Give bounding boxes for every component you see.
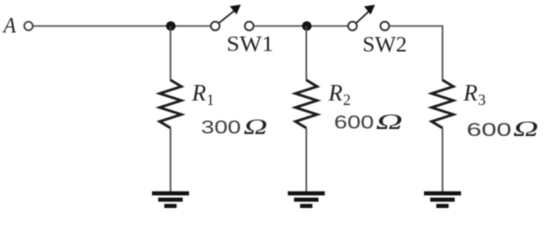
svg-text:600: 600: [467, 120, 512, 140]
terminal A: [24, 22, 33, 31]
wire node2 down to R2: [305, 26, 307, 81]
wire R2 to ground: [305, 128, 307, 192]
wire node1 down to R1: [170, 26, 172, 81]
ground G2: [288, 191, 325, 208]
svg-text:600: 600: [334, 113, 374, 133]
svg-text:2: 2: [343, 92, 351, 109]
wire SW1 to SW2: [254, 25, 348, 27]
svg-text:Ω: Ω: [244, 114, 268, 139]
svg-text:A: A: [2, 13, 17, 38]
svg-text:1: 1: [207, 92, 215, 109]
switch SW1: [211, 5, 254, 31]
resistor R3: [432, 80, 454, 128]
wire R3 to ground: [442, 128, 444, 192]
ground G3: [424, 191, 461, 208]
junction node 1: [166, 21, 176, 31]
ground G1: [152, 191, 189, 208]
svg-text:R: R: [463, 81, 478, 106]
wire SW2 to corner: [389, 26, 442, 81]
wire A to SW1: [33, 25, 210, 27]
switch SW2: [348, 5, 389, 31]
svg-text:3: 3: [478, 92, 486, 109]
wire R1 to ground: [170, 128, 172, 192]
svg-text:R: R: [191, 81, 206, 106]
svg-text:300: 300: [201, 118, 241, 138]
resistor R1: [160, 80, 182, 128]
svg-text:Ω: Ω: [376, 109, 403, 134]
svg-text:SW1: SW1: [227, 31, 274, 56]
junction node 2: [302, 21, 312, 31]
resistor R2: [295, 80, 317, 128]
svg-text:SW2: SW2: [363, 31, 408, 56]
svg-text:R: R: [328, 81, 343, 106]
svg-text:Ω: Ω: [513, 116, 539, 141]
